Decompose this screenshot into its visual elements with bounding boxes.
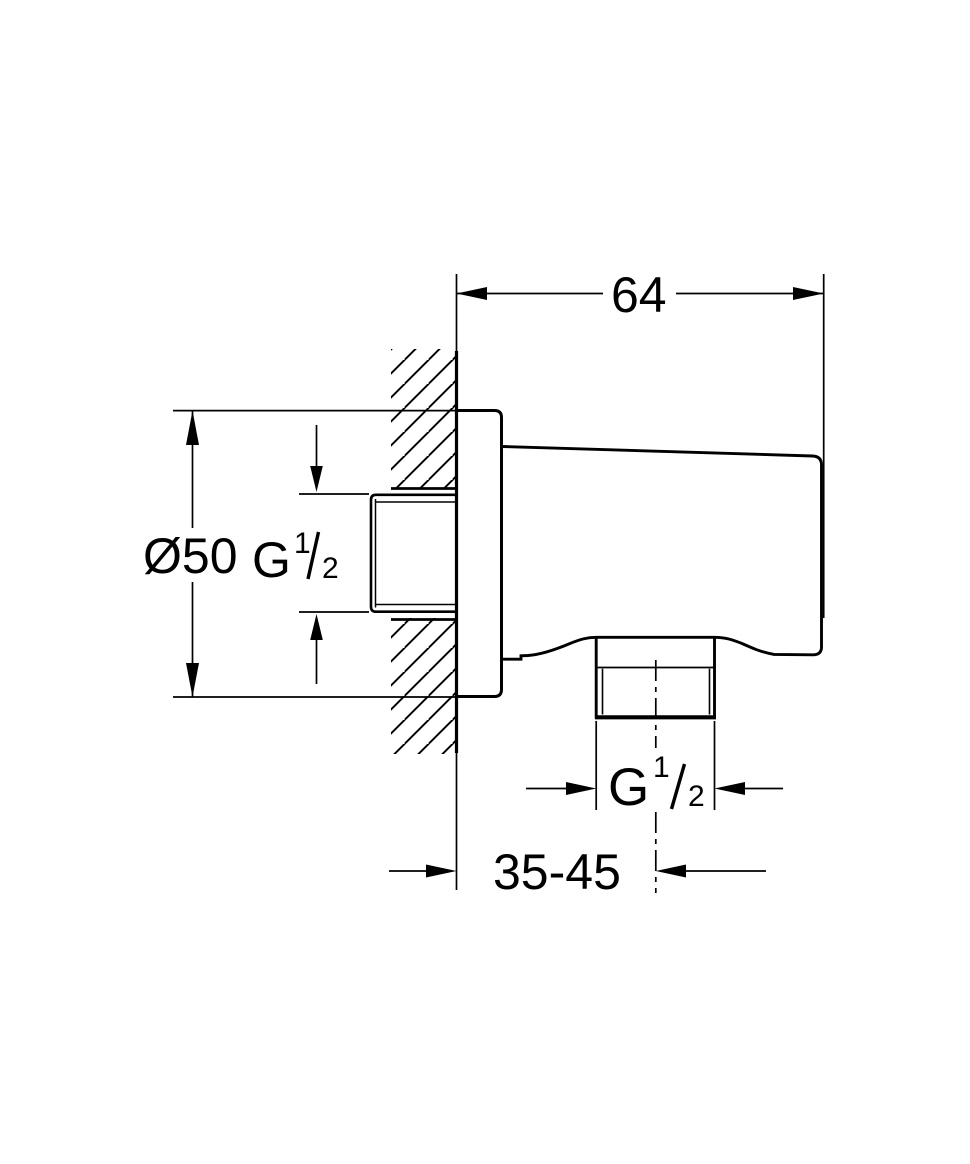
outlet end face — [595, 715, 716, 719]
svg-text:G: G — [608, 758, 649, 817]
wall hole edge top — [391, 487, 457, 490]
inlet thread G1/2: up arrowhead — [310, 614, 323, 640]
centerline of outlet (dashed), lower part — [655, 812, 657, 893]
dimension 64: dimension line right segment — [676, 293, 824, 295]
outlet spigot left edge — [595, 638, 598, 719]
svg-text:1: 1 — [294, 527, 311, 560]
dimension 35-45: wall extension line — [456, 753, 458, 890]
svg-text:G: G — [252, 532, 291, 588]
svg-text:1: 1 — [653, 751, 670, 784]
dimension 64: right arrowhead — [793, 287, 824, 300]
dimension 64: left extension line (above wall) — [456, 274, 458, 351]
dimension D50: up arrowhead — [186, 411, 199, 445]
dimension 35-45: right dimension line — [684, 870, 766, 872]
outlet thread G1/2: right extension line — [714, 721, 716, 810]
svg-text:2: 2 — [322, 552, 339, 585]
inlet thread inner (minor diameter) lines — [376, 499, 457, 608]
centerline of outlet (dashed), upper part — [655, 660, 657, 748]
dimension D50: top extension line — [173, 410, 457, 412]
inlet thread G1/2: lower leader line — [316, 640, 318, 684]
wall hatching lower section — [391, 618, 457, 754]
svg-text:2: 2 — [688, 780, 705, 813]
inlet thread G1/2: upper leader line — [316, 425, 318, 467]
dimension 64: right extension line — [823, 274, 825, 618]
inlet thread G1/2: top extension line — [299, 493, 369, 495]
escutcheon flange — [457, 411, 502, 697]
svg-text:35-45: 35-45 — [493, 844, 621, 900]
dimension D50: down arrowhead — [186, 663, 199, 697]
outlet thread G1/2: left arrowhead — [566, 782, 596, 795]
outlet thread G1/2: left dimension line — [526, 788, 568, 790]
elbow body outline — [502, 447, 822, 660]
svg-text:64: 64 — [611, 267, 667, 323]
outlet thread G1/2: left extension line — [595, 721, 597, 810]
inlet thread G1/2: bottom extension line — [299, 611, 369, 613]
outlet thread G1/2: right dimension line — [743, 788, 783, 790]
outlet thread G1/2: right arrowhead — [715, 782, 746, 795]
dimension 64: left arrowhead — [457, 287, 488, 300]
outlet thread G1/2: label fraction slash — [672, 764, 685, 809]
inlet thread G1/2: down arrowhead — [310, 466, 323, 492]
wall surface line — [455, 351, 458, 753]
svg-text:Ø50: Ø50 — [143, 528, 238, 584]
dimension 64: dimension line left segment — [457, 293, 604, 295]
outlet thread shoulder line — [596, 667, 714, 669]
inlet thread G1/2: label fraction slash — [308, 532, 319, 579]
wall hole edge bottom — [391, 618, 457, 621]
dimension 35-45: left dimension line — [389, 870, 428, 872]
dimension 35-45: right arrowhead — [656, 865, 686, 878]
inlet thread outer body — [371, 495, 457, 612]
outlet thread minor diameter lines — [603, 669, 710, 715]
dimension D50: dimension line upper segment — [192, 411, 194, 528]
dimension D50: dimension line lower segment — [192, 582, 194, 697]
wall hatching upper section — [391, 349, 457, 489]
dimension 35-45: left arrowhead — [426, 865, 457, 878]
dimension D50: bottom extension line — [173, 696, 457, 698]
outlet spigot right edge — [713, 638, 716, 719]
